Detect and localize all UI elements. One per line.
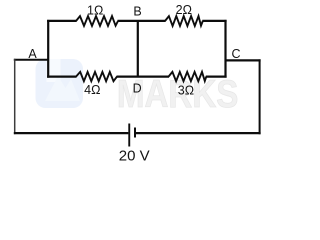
wire bottom branch: R3 to C corner — [206, 75, 227, 77]
svg-text:D: D — [133, 82, 142, 96]
wire A vertical (node A branch riser) — [47, 20, 49, 78]
resistor R4 zigzag (4 ohm) — [76, 72, 117, 81]
svg-text:C: C — [231, 47, 240, 61]
wire right outer vertical — [259, 59, 261, 134]
svg-text:A: A — [28, 47, 37, 61]
wire bottom branch: R4 to R3 (through node D) — [117, 75, 170, 77]
wire bottom rail left (to battery) — [14, 132, 129, 134]
svg-text:4Ω: 4Ω — [84, 83, 100, 97]
svg-text:3Ω: 3Ω — [178, 84, 194, 98]
resistor R3 zigzag (3 ohm) — [169, 72, 207, 81]
wire top branch: R1 to R2 (through node B) — [118, 20, 166, 22]
watermark logo icon — [36, 59, 84, 108]
svg-text:B: B — [133, 5, 141, 19]
wire top branch: A corner to resistor R1 — [47, 20, 76, 22]
battery long plate — [128, 124, 130, 147]
wire A stub (left lead into node A) — [14, 59, 49, 61]
resistor R2 zigzag (2 ohm) — [165, 16, 203, 26]
battery short plate — [134, 128, 136, 138]
resistor R1 zigzag (1 ohm) — [76, 16, 118, 26]
svg-text:1Ω: 1Ω — [87, 3, 103, 17]
svg-text:2Ω: 2Ω — [176, 3, 192, 17]
wire left outer vertical — [14, 59, 16, 134]
wire C vertical (node C branch riser) — [224, 20, 226, 78]
wire bottom branch: A corner to resistor R4 — [47, 75, 76, 77]
wire B-D middle vertical — [137, 20, 139, 77]
wire top branch: R2 to C corner — [202, 20, 226, 22]
wire C stub (node C to right outer) — [225, 59, 261, 61]
wire bottom rail right (from battery) — [136, 132, 261, 134]
svg-text:20 V: 20 V — [119, 148, 150, 165]
